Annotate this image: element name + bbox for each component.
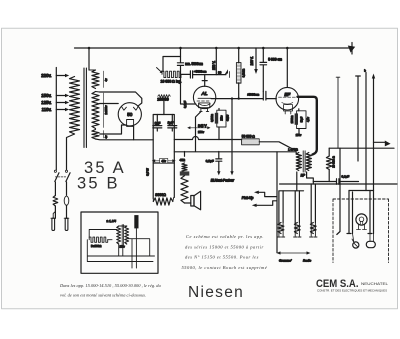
- wire AL cathode: [218, 109, 220, 140]
- inset transformer secondary: [125, 226, 129, 244]
- svg-text:8µF: 8µF: [155, 122, 161, 126]
- svg-text:vol. de son est monté suivant: vol. de son est monté suivant schéma ci-…: [60, 293, 146, 298]
- inset connector black bar: [134, 215, 138, 228]
- wire right horizontal: [329, 147, 394, 149]
- transformer T1 core: [84, 68, 86, 148]
- wire mains line: [55, 68, 57, 170]
- transformer T1 secondary winding 4v top: [92, 70, 99, 89]
- wire secondary links: [89, 70, 100, 92]
- tube EF base: [284, 105, 293, 111]
- switch S1 pole right: [65, 170, 67, 172]
- inset wiring: [87, 226, 154, 268]
- svg-text:8µF: 8µF: [168, 121, 174, 125]
- wire lead d antenna: [373, 79, 375, 149]
- wire screen bus with hop: [174, 137, 241, 140]
- wire HT winding to rectifier anode: [100, 92, 142, 106]
- svg-text:250v: 250v: [221, 115, 224, 121]
- wire right rail: [173, 163, 175, 197]
- wire primary bottom to switch: [67, 134, 75, 170]
- junction dot screen drop: [231, 97, 233, 99]
- svg-text:50µF: 50µF: [301, 116, 304, 122]
- coil L1: [279, 191, 283, 223]
- svg-text:≈5000cm: ≈5000cm: [194, 70, 207, 74]
- dimension arrow 250v: [189, 127, 208, 129]
- svg-text:0,5MΩ: 0,5MΩ: [241, 69, 245, 77]
- wire bus to secondary top: [88, 48, 90, 70]
- transformer T1 primary winding: [70, 77, 80, 135]
- svg-text:1500Ω: 1500Ω: [290, 116, 294, 124]
- svg-text:des séries 15000 et 55000 à pa: des séries 15000 et 55000 à partir: [185, 245, 264, 250]
- wire thick plate lead: [298, 97, 317, 155]
- svg-text:150v.: 150v.: [41, 93, 51, 98]
- svg-text:35 B: 35 B: [77, 175, 120, 193]
- dial lamp: [356, 214, 367, 225]
- potentiometer wiper arrow: [157, 68, 162, 73]
- svg-text:Du500Ω: Du500Ω: [91, 244, 101, 248]
- wire HT winding to rectifier: [100, 103, 119, 105]
- svg-text:36: 36: [218, 70, 222, 74]
- wire lead a: [336, 77, 340, 148]
- plug pin left: [51, 206, 56, 218]
- filter capacitor can 2x8uF: [153, 115, 174, 164]
- svg-text:0,5µF: 0,5µF: [206, 159, 214, 163]
- junction dots on bus: [88, 47, 289, 50]
- svg-text:0,5 W: 0,5 W: [146, 168, 150, 176]
- rectifier tube V1 50: [118, 103, 141, 126]
- svg-text:10 000 Ω log.: 10 000 Ω log.: [161, 80, 182, 84]
- svg-text:des N° 15150 et 55500. Pour le: des N° 15150 et 55500. Pour les: [185, 255, 259, 260]
- wire screen drop: [231, 99, 233, 172]
- transformer primary tap arrows: [56, 75, 65, 77]
- svg-text:160 V.: 160 V.: [250, 56, 254, 65]
- resistor AL cathode 150 ohm: [217, 110, 226, 127]
- lamp leads left pair: [347, 191, 353, 234]
- output transformer secondary: [306, 153, 311, 171]
- potentiometer 10000 ohm log: [162, 71, 181, 77]
- svg-text:3000Ω: 3000Ω: [155, 193, 166, 197]
- svg-text:250v: 250v: [120, 246, 126, 249]
- svg-text:Niesen: Niesen: [188, 284, 244, 301]
- capacitor 5000cm right: [260, 48, 267, 91]
- capacitor 8uF right: [168, 115, 177, 132]
- transformer T1 secondary 4v bottom: [92, 130, 99, 140]
- resistor EF cathode 1500 ohm: [297, 111, 306, 129]
- wire pot hook: [163, 57, 181, 72]
- svg-text:2x300v: 2x300v: [104, 105, 108, 115]
- junction dot plate line: [238, 97, 240, 99]
- svg-text:Radio: Radio: [303, 259, 311, 263]
- wire lead a lower: [337, 148, 340, 234]
- scale lamp socket: [353, 242, 359, 248]
- resistor 0,5M plate load: [238, 48, 240, 63]
- output transformer primary: [296, 153, 301, 171]
- svg-text:0,1µF: 0,1µF: [183, 101, 187, 108]
- capacitor 0,1uF: [313, 179, 358, 185]
- fuse right: [64, 196, 69, 205]
- wire transformer bottoms: [297, 172, 314, 191]
- pickup terminals: [256, 192, 277, 205]
- dashed chassis outline: [333, 199, 389, 263]
- coil L2: [295, 191, 299, 223]
- tube V2 AL: [193, 86, 215, 108]
- svg-text:110v.: 110v.: [42, 107, 52, 112]
- svg-text:250v: 250v: [296, 134, 302, 137]
- wire lead c lower: [365, 148, 367, 190]
- dimension arrow 45: [154, 160, 173, 162]
- svg-text:125v.: 125v.: [41, 100, 51, 105]
- wire AL pin down: [196, 112, 201, 152]
- band switch arrow: [280, 252, 308, 254]
- wire lead d lower: [373, 148, 375, 190]
- wire AL grid cap drop: [202, 75, 207, 87]
- resistor 3000 ohm: [153, 198, 173, 205]
- terminal arrow 36: [225, 69, 229, 74]
- wire long horizontal AVC: [280, 183, 397, 185]
- inset diagram box: [81, 212, 158, 273]
- field coil dark band: [180, 171, 190, 175]
- svg-text:5 000 cm: 5 000 cm: [268, 58, 282, 62]
- wire B+ top bus: [75, 47, 353, 49]
- transformer T1 secondary HT winding: [92, 92, 99, 129]
- resistor 10000 ohm: [326, 156, 332, 170]
- svg-text:AL: AL: [201, 91, 208, 97]
- svg-text:0,5MΩ: 0,5MΩ: [210, 114, 214, 122]
- capacitor 0,5uF to speaker: [216, 152, 222, 172]
- secondary dimension arrows and labels: [103, 71, 105, 138]
- wire earth arrow: [374, 141, 386, 143]
- svg-text:4,5v: 4,5v: [306, 116, 310, 122]
- wire heater return: [100, 125, 127, 134]
- svg-text:Pick-Up: Pick-Up: [242, 196, 254, 200]
- svg-text:Ce schéma est valable pr. les: Ce schéma est valable pr. les app.: [186, 234, 264, 239]
- loudspeaker LS1: [191, 196, 194, 207]
- svg-text:El.Haut-Parleur: El.Haut-Parleur: [211, 179, 235, 183]
- wire AF drop to switch: [276, 152, 278, 253]
- svg-text:NEUCHATEL: NEUCHATEL: [361, 282, 388, 286]
- rectifier base box: [127, 120, 134, 127]
- svg-text:0,1µF: 0,1µF: [342, 175, 350, 179]
- svg-text:45Ω: 45Ω: [180, 158, 186, 162]
- fuse left coil: [53, 196, 58, 207]
- svg-text:220v.: 220v.: [41, 73, 51, 78]
- wire second horizontal: [280, 190, 304, 192]
- capacitor 8uF left: [153, 115, 162, 132]
- capacitor coupling 15000cm: [263, 91, 276, 100]
- wire 250V rail: [215, 48, 217, 75]
- note text main: [182, 234, 268, 271]
- svg-text:10 000 Ω: 10 000 Ω: [332, 156, 336, 167]
- antenna terminal arrow: [351, 43, 353, 55]
- inset transformer primary: [117, 226, 121, 244]
- svg-text:50: 50: [127, 112, 133, 117]
- switch mechanical link: [55, 176, 66, 178]
- svg-text:250 V.: 250 V.: [212, 61, 216, 70]
- field coil lower winding: [181, 176, 188, 203]
- inset transformer core: [122, 225, 123, 246]
- tube EF feed from bus: [286, 48, 288, 87]
- svg-text:Grammo′: Grammo′: [279, 259, 292, 263]
- voltage arrow 160V: [255, 48, 257, 70]
- capacitor 5000cm: [177, 48, 183, 71]
- note text inset: [59, 283, 161, 298]
- svg-text:CONSTR. ET DES ELECTRIQUES ET: CONSTR. ET DES ELECTRIQUES ET MECANIQUES: [317, 288, 387, 292]
- resistor 45 ohm chain: [184, 152, 186, 157]
- svg-text:± 1,1/4: ± 1,1/4: [107, 219, 117, 223]
- svg-text:50 000 Ω: 50 000 Ω: [242, 135, 256, 139]
- output transformer core: [303, 151, 305, 172]
- switch S1 pole left: [54, 170, 56, 172]
- svg-text:mn. 5000cm: mn. 5000cm: [185, 62, 203, 66]
- svg-text:345 V: 345 V: [198, 124, 207, 128]
- connector pill: [366, 241, 375, 247]
- svg-text:49,5v: 49,5v: [225, 114, 229, 121]
- svg-text:250v: 250v: [198, 130, 205, 134]
- svg-text:45v: 45v: [161, 159, 166, 163]
- wire lead b: [356, 76, 361, 161]
- capacitor series 5000cm grid: [181, 71, 226, 78]
- tube V3 EF: [276, 87, 299, 110]
- wire AF return line: [174, 152, 296, 155]
- svg-text:↓5000cm: ↓5000cm: [247, 92, 260, 96]
- wire lamp link: [349, 190, 374, 192]
- wire AL plate line: [211, 98, 263, 100]
- wire rectifier output: [133, 126, 135, 139]
- coil L3: [311, 184, 315, 223]
- wire left rail: [152, 163, 154, 198]
- svg-text:1.475Ω: 1.475Ω: [288, 147, 299, 151]
- inset resistor 500 ohm: [89, 237, 108, 242]
- wire grid feed to AL: [181, 71, 196, 104]
- tube AL base: [199, 103, 210, 108]
- lamp leads right pair: [368, 191, 374, 234]
- plug pin right: [64, 217, 69, 219]
